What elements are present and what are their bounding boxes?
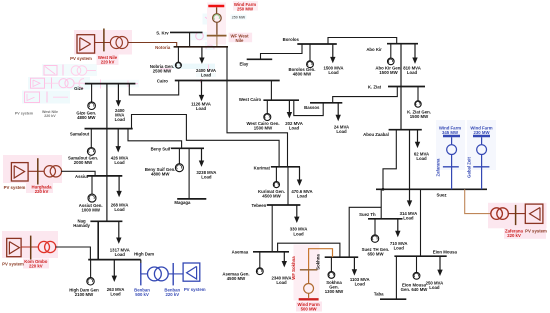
wire High Dam to Benban [140,260,142,274]
load 250 MVA (Eion Mousa) [439,256,441,270]
generator Asemaa Gen [259,252,261,268]
ghost PV square A [44,66,57,76]
svg-text:Gabal Zeit: Gabal Zeit [467,157,472,178]
bus Samalout [85,128,133,130]
svg-text:220 kV: 220 kV [101,60,115,65]
svg-text:Load: Load [394,246,405,251]
bus Taba [380,298,406,300]
load 2400 MVA (Notoria) [201,47,203,58]
svg-text:1500 MW: 1500 MW [410,114,429,119]
wire AbouZaabal-Suez [383,130,396,190]
svg-text:PV system: PV system [70,56,92,61]
generator Gabal Zeit turbine [481,137,483,145]
svg-text:2000 MW: 2000 MW [74,160,93,165]
load 24 MVA (Bassous) [337,103,339,116]
svg-text:High Dam: High Dam [134,252,154,257]
PV system P1 (West Nile) [77,35,95,53]
load 2480 MVA (Giza) [117,84,119,101]
transformer T1 (West Nile) [110,37,122,49]
generator K. Ziat Gen [417,87,419,101]
transformer T4 (Benban) [148,267,162,281]
svg-text:Sokhna: Sokhna [316,254,321,270]
wind farm bar 250 MW [208,5,224,8]
svg-text:Hamady: Hamady [73,223,90,228]
svg-text:Load: Load [114,160,125,165]
svg-text:Load: Load [297,194,308,199]
svg-text:PV system: PV system [525,228,547,233]
wire Samalout-Kurimat [132,115,280,167]
wire Cairo-WestCairo [270,81,272,101]
svg-text:250 MW: 250 MW [232,16,246,20]
ghost near S.Krv bus [191,32,207,40]
svg-text:345 MW: 345 MW [442,130,459,135]
PV system P3 (Kom Ombo) [7,238,21,256]
load 1317 MVA (Nag Hamady) [118,221,120,238]
wire Suez to Zafarana transformer [465,189,491,213]
generator Giza Gen [91,84,93,102]
svg-text:220 kV: 220 kV [35,189,49,194]
wire Kurimat-Tebeen [287,167,289,205]
PV system P2 (Hurghada) [11,163,28,181]
highlight Zafarana PV group [488,203,547,229]
svg-text:Taba: Taba [374,292,384,297]
bus Elay [247,58,273,60]
wire Samalout-BenySuif [128,129,182,149]
ghost row B highlight [28,77,90,90]
wire T1 to Notoria [128,43,177,47]
svg-text:S. Krv: S. Krv [156,30,169,35]
ghost transformer B [59,79,68,88]
svg-text:650 MW: 650 MW [368,252,385,257]
svg-text:230 MW: 230 MW [474,130,491,135]
load 1126 MVA (Cairo) [201,81,203,96]
svg-text:Load: Load [196,106,207,111]
svg-text:Load: Load [201,175,212,180]
svg-text:K. Ziat: K. Ziat [368,84,382,89]
svg-text:Gen. 640 MW: Gen. 640 MW [401,287,429,292]
svg-text:Borolos: Borolos [283,37,300,42]
wire Benban [141,273,148,275]
wire WestCairo-Bassous [294,100,323,115]
bus Sokhna [325,256,359,258]
wire AbuKir-KZiat-AbouZaabal main vertical [400,44,402,130]
wire S.Krv-Notoria [189,32,191,46]
bus Hurghada 220 kV [37,158,39,184]
wire WF to Notoria [216,37,218,47]
svg-text:Load: Load [201,73,212,78]
bus K. Ziat [388,86,425,88]
ghost transformer A [71,66,81,76]
ghost PV square B [31,78,45,88]
highlight Hurghada PV group [3,155,62,183]
bus Abou Zaabal [389,129,422,131]
bus Tebeen [267,204,301,206]
load 1500 MVA (Borolos) [332,44,334,58]
bus Nag Hamady [90,220,122,222]
wire Giza-Cairo [129,81,178,95]
ghost bus tick A [62,65,64,76]
svg-text:1500 MW: 1500 MW [379,70,398,75]
load 3238 MVA (Beny Suif) [201,148,203,161]
bus Zafarana tick [443,166,459,168]
bus Abu Kir [387,43,418,45]
wire Notoria-Cairo [226,47,228,81]
wire Asemaa-Sokhna [278,243,340,257]
load 2340 MVA (Asemaa) [283,252,285,262]
svg-text:220 kV: 220 kV [44,114,56,118]
svg-text:220 kV: 220 kV [507,233,521,238]
highlight WF West Nile group [207,3,226,45]
generator Assiut Gen [91,176,93,194]
wire Elay-Borolos [261,44,303,59]
bus Borolos [297,43,337,45]
wire Tebeen-Asemaa [271,205,273,252]
svg-text:PV system: PV system [2,262,24,267]
bus S. Krv [170,31,203,33]
svg-text:Tebeen: Tebeen [252,203,267,208]
bus Zaferana 220 kV [515,205,517,225]
svg-text:Load: Load [336,129,347,134]
load 1103 MVA (Sokhna) [353,257,355,270]
svg-text:Abou Zaabal: Abou Zaabal [363,132,389,137]
load 263 MVA (High Dam) [113,260,115,277]
svg-text:4500 MW: 4500 MW [262,194,281,199]
bus Cairo [175,80,280,82]
wind farm bar 345 MW [443,135,460,137]
load 268 MVA (Assiut) [118,176,120,192]
wire T4 to Benban 220 [168,273,183,275]
wire BenySuif-Maghagha [188,148,190,199]
bus West Cairo [263,99,299,101]
svg-text:Load: Load [407,70,418,75]
bus Kurimat [271,166,300,168]
svg-text:Load: Load [115,252,126,257]
bus Eion Mousa [394,255,446,257]
svg-text:Samalout: Samalout [70,131,90,136]
transformer T3 (Kom Ombo) [38,241,49,252]
svg-text:2100 MW: 2100 MW [75,292,94,297]
bus Suez [376,188,487,190]
svg-text:WF Sokhna: WF Sokhna [291,256,296,280]
svg-text:Cairo: Cairo [157,79,168,84]
wire T3 to High Dam bus [56,247,91,260]
svg-text:Abo Kir: Abo Kir [366,47,382,52]
highlight Zafarana WF group [436,120,465,170]
bus High Dam [88,259,141,261]
ghost PV square C [25,92,40,103]
svg-text:PV system: PV system [4,185,26,190]
svg-text:Load: Load [416,156,427,161]
load 202 MVA (West Cairo) [288,100,290,113]
svg-text:1000 MW: 1000 MW [82,208,101,213]
transformer T2 (Hurghada) [44,166,55,177]
generator Samalout Gen [90,129,92,148]
generator Nobria Gen [177,47,179,63]
highlight West Nile PV group [74,30,132,55]
load 710 MVA (Suez TH) [397,219,399,232]
wire Cairo-Kurimat [227,81,288,167]
svg-text:Asemaa: Asemaa [232,250,249,255]
svg-text:220 kV: 220 kV [165,292,179,297]
wire Suez-EionMousa [420,189,422,256]
generator Sokhna turbine [308,270,310,284]
bus Maghagha [177,198,206,200]
svg-text:Load: Load [293,231,304,236]
svg-text:Eion Mousa: Eion Mousa [433,249,458,254]
svg-text:PV system: PV system [184,287,206,292]
bus WF West Nile [207,35,227,37]
svg-text:4800 MW: 4800 MW [77,115,96,120]
transformer T5 (Zafarana) [491,208,503,220]
bus Benban 500 kV [140,263,142,285]
bus Notoria [174,46,228,48]
svg-text:Elay: Elay [239,61,248,66]
load 330 MVA (Tebeen) [296,205,298,217]
load 426 MVA (Samalout) [117,129,119,147]
load 470.6 MVA (Kurimat) [299,167,301,180]
svg-text:Load: Load [115,117,126,122]
PV system P5 (Zafarana) [525,204,543,223]
svg-text:2500 MW: 2500 MW [153,68,172,73]
generator Kurimat Gen [275,167,277,182]
wire EionMousa-Taba [395,256,397,299]
wire Bassous-KZiat [333,87,398,103]
generator Beny Suif Gen [178,148,180,163]
ghost row A highlight [42,64,97,76]
wire PV to bus West Nile [95,42,111,44]
svg-text:Bassos: Bassos [304,105,320,110]
svg-text:Assiut: Assiut [75,174,89,179]
generator Abo Kir Gen [390,44,392,59]
generator Sokhna Gen [330,257,332,271]
svg-text:Load: Load [276,280,287,285]
wire T2 to Assiut bus [61,171,95,176]
wire P2 to Hurghada bus [28,170,44,172]
ghost near WF turbine [203,14,216,25]
bus Giza [85,83,135,85]
wire Borolos-AbuKir [328,38,397,45]
wire P3 to Kom Ombo bus [21,246,38,248]
svg-text:Kurimat: Kurimat [254,165,271,170]
ghost band near 2400 MVA label [173,64,215,69]
wire WF Sokhna to bus [309,249,333,270]
svg-text:Load: Load [355,281,366,286]
svg-text:Load: Load [328,70,339,75]
svg-text:PV system: PV system [15,112,33,116]
ghost transformer over Giza bus [83,80,139,88]
svg-text:Gize: Gize [74,86,84,91]
svg-text:Suez: Suez [436,193,446,198]
ghost bus tick C [46,92,48,103]
load 62 MVA (Abou Zaabal) [417,130,419,143]
svg-text:1500 MW: 1500 MW [254,126,273,131]
PV system P4 (Benban, blue) [183,263,200,281]
svg-text:Load: Load [289,126,300,131]
svg-text:Notoria: Notoria [155,45,171,50]
node junction Suez [382,188,385,191]
svg-text:1300 MW: 1300 MW [325,289,344,294]
highlight WF Sokhna group [294,245,320,301]
svg-text:250 MW: 250 MW [237,6,254,11]
svg-text:Nile: Nile [236,38,244,43]
generator Borolos Gen [309,44,311,61]
generator WF West Nile turbine [216,7,218,13]
svg-text:500 MW: 500 MW [301,307,318,312]
generator High Dam Gen [90,260,92,278]
svg-text:Load: Load [110,292,121,297]
svg-text:West Cairo: West Cairo [239,97,262,102]
svg-text:Load: Load [403,216,414,221]
svg-text:500 kV: 500 kV [135,292,149,297]
generator Suez TH Gen [374,219,376,235]
svg-text:4500 MW: 4500 MW [227,276,246,281]
generator Eion Mousa Gen [416,256,418,272]
svg-text:Load: Load [429,285,440,290]
highlight Kom Ombo PV group [2,231,58,258]
wire NagHamady-HighDam [97,221,99,259]
ghost tick on Cairo bus [200,79,202,83]
wind farm bar 230 MW [473,135,490,137]
bus Beny Suif [171,147,204,149]
load 314 MVA (AbouZaabal-Suez line) [409,130,411,201]
wire T5 to PV [508,213,526,215]
bus Kom Ombo 220 kV [30,236,32,260]
svg-text:4800 MW: 4800 MW [151,171,170,176]
bus West Nile 220 kV [103,29,105,52]
wind farm bar 500 MW [299,298,319,300]
bus Assiut [87,175,122,177]
bus WF Sokhna tick [300,269,317,271]
ghost row C highlight [22,91,70,104]
svg-text:Magaga: Magaga [174,200,191,205]
svg-text:4800 MW: 4800 MW [293,72,312,77]
bus Benban 220 kV [172,263,174,285]
wire Giza-NagHamady long vertical [106,84,108,222]
svg-text:Suez Th: Suez Th [359,212,376,217]
ghost bus tick B [51,78,53,89]
bus Suez TH [368,218,403,220]
ghost wire C [53,96,68,98]
svg-text:Zafarana: Zafarana [436,158,441,177]
svg-text:Load: Load [114,207,125,212]
generator Zafarana turbine [451,137,453,145]
generator West Cairo Gen [266,100,268,113]
svg-text:Beny Suif: Beny Suif [151,146,171,151]
bus Asemaa [253,251,289,253]
bus Gabal Zeit tick [473,166,489,168]
wire Suez-Sokhna [349,207,381,257]
load 810 MVA (Abu Kir) [414,44,416,59]
bus Bassous [310,102,342,104]
svg-text:220 kV: 220 kV [29,264,43,269]
wire Suez-SuezTH [380,189,382,219]
